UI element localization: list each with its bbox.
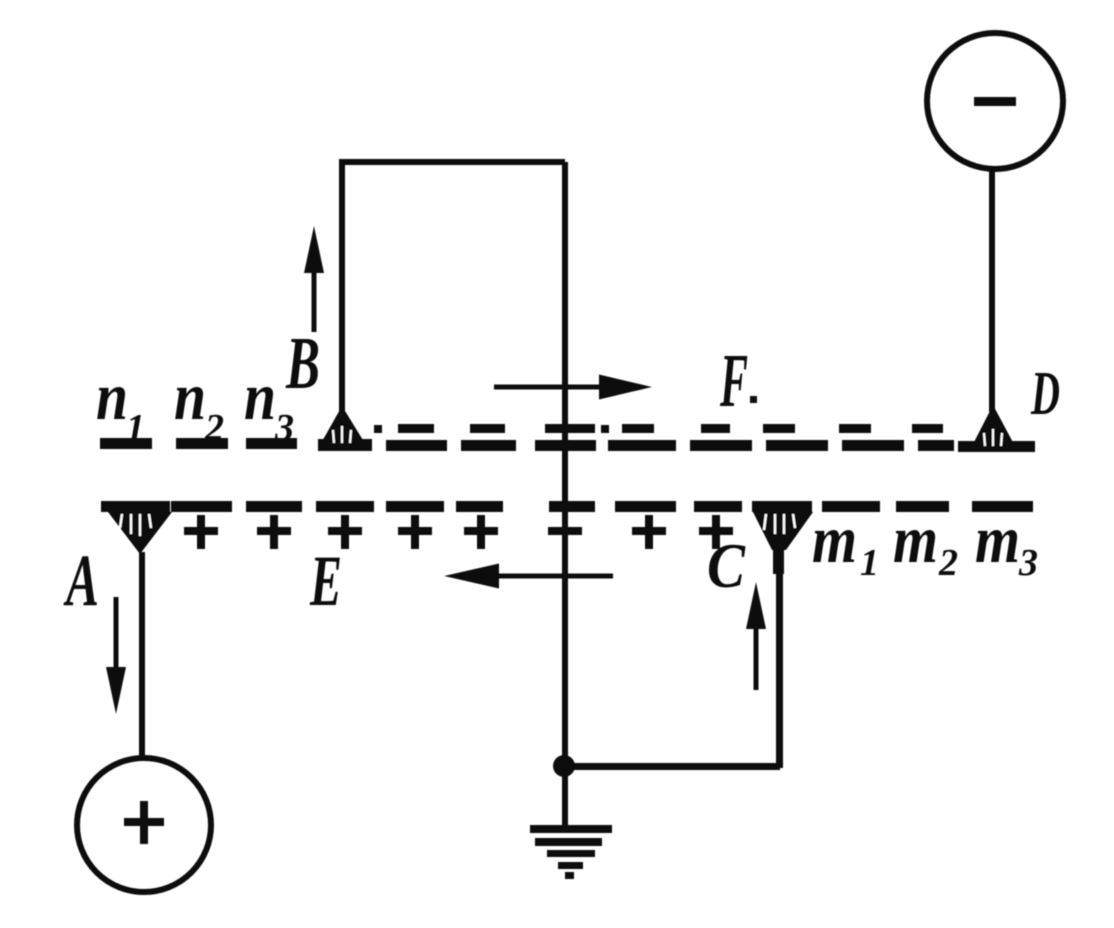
svg-text:m: m	[812, 501, 857, 577]
svg-text:1: 1	[126, 407, 145, 449]
svg-text:2: 2	[938, 542, 958, 584]
svg-text:A: A	[63, 540, 99, 622]
svg-text:n: n	[174, 358, 206, 434]
svg-text:F: F	[719, 339, 748, 423]
svg-text:E: E	[309, 541, 342, 621]
svg-text:n: n	[244, 358, 276, 434]
svg-text:3: 3	[274, 407, 294, 449]
svg-text:B: B	[285, 323, 320, 405]
svg-text:3: 3	[1018, 542, 1038, 584]
svg-text:1: 1	[860, 542, 879, 584]
svg-text:D: D	[1030, 360, 1060, 428]
svg-text:C: C	[707, 530, 746, 601]
svg-text:n: n	[96, 358, 128, 434]
svg-text:m: m	[893, 501, 938, 577]
svg-text:2: 2	[204, 407, 224, 449]
svg-text:m: m	[975, 501, 1020, 577]
